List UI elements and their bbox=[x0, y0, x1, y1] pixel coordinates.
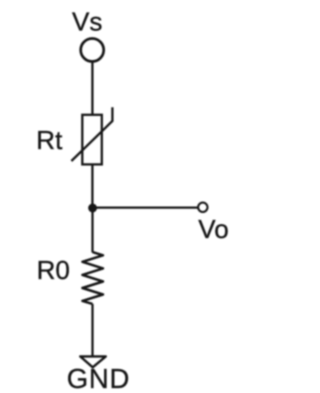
thermistor Rt bbox=[71, 107, 112, 164]
terminal Vo bbox=[198, 203, 207, 212]
wire node to Vo bbox=[93, 206, 199, 208]
wire R0 to ground bbox=[91, 304, 93, 357]
wire Rt to node bbox=[91, 164, 93, 208]
svg-text:GND: GND bbox=[67, 363, 130, 393]
svg-text:Vo: Vo bbox=[198, 214, 228, 244]
ground bbox=[80, 356, 106, 367]
wire node to R0 bbox=[91, 208, 93, 252]
svg-text:Vs: Vs bbox=[72, 7, 102, 37]
svg-text:R0: R0 bbox=[37, 255, 70, 285]
svg-text:Rt: Rt bbox=[36, 125, 63, 155]
resistor R0 bbox=[82, 252, 103, 304]
terminal Vs bbox=[81, 39, 104, 62]
wire Vs to Rt bbox=[91, 63, 93, 115]
node junction bbox=[88, 204, 97, 213]
